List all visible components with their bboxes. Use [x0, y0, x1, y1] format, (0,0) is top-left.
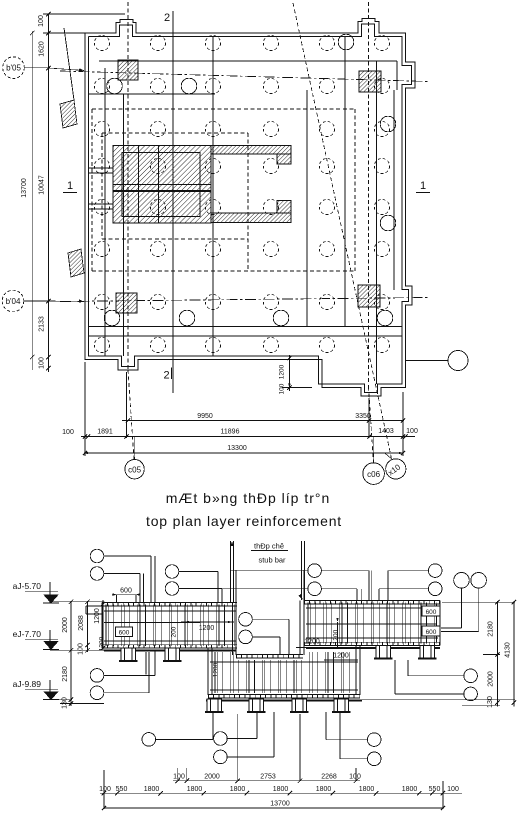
dim ticks left chain	[46, 12, 50, 16]
bottom dim row2	[100, 792, 462, 794]
column pad hatched bottom-left	[116, 293, 137, 313]
svg-text:4130: 4130	[505, 642, 512, 658]
grid line b04 horizontal chain	[60, 298, 428, 302]
callout circle M1	[239, 613, 253, 627]
plan dim line row3 13300	[84, 452, 403, 454]
callout circle RR2	[464, 687, 478, 701]
right band rebar lines	[306, 607, 438, 609]
section right dim extensions	[442, 601, 515, 603]
svg-text:1620: 1620	[39, 41, 46, 57]
column pad hatched top-left	[118, 60, 138, 80]
hatched arm bottom end tab	[277, 201, 291, 214]
hidden outline rectangle large	[92, 108, 355, 110]
section left dim vertical C	[102, 600, 104, 650]
rebar line vertical x123	[123, 94, 125, 356]
svg-text:2753: 2753	[260, 774, 276, 781]
svg-text:1891: 1891	[97, 429, 113, 436]
section right dim vertical B	[513, 601, 515, 707]
middle slab bottom edges	[208, 694, 360, 696]
pit pedestal 2	[249, 699, 264, 712]
rebar line horizontal lower 2	[89, 335, 402, 337]
bar mark box 600 lower	[422, 626, 440, 636]
grid bubble c05	[134, 437, 136, 460]
svg-text:1200: 1200	[304, 639, 320, 646]
plan dim line row1	[122, 420, 404, 422]
svg-text:9950: 9950	[197, 413, 213, 420]
svg-text:2180: 2180	[62, 666, 69, 682]
rebar line vertical x345	[344, 37, 346, 326]
svg-text:1200: 1200	[199, 625, 215, 632]
pile circles dashed grid	[94, 35, 109, 50]
bubble b05 leader	[24, 67, 48, 69]
svg-text:1800: 1800	[187, 786, 203, 793]
left band end step	[86, 605, 102, 607]
rebar line vertical x376	[376, 61, 378, 384]
svg-text:aJ-5.70: aJ-5.70	[13, 581, 42, 591]
grid line c06 vertical dashed	[368, 2, 370, 387]
pit right wall	[355, 646, 357, 696]
pit pedestal 1	[207, 699, 222, 712]
callout circle L4	[165, 582, 179, 596]
hatched arm top end tab	[277, 154, 291, 164]
grid line b05 horizontal chain	[60, 71, 428, 82]
rebar line vertical right-top short	[396, 61, 398, 90]
callout circle R1	[308, 564, 322, 578]
grid line c05 lower dashed	[128, 370, 134, 459]
rebar line vertical x307	[306, 90, 308, 326]
svg-text:1800: 1800	[273, 786, 289, 793]
column pad hatched top-right	[359, 71, 381, 92]
section line 2-2 vertical	[172, 21, 174, 393]
svg-text:600: 600	[426, 609, 437, 616]
pit bearing line	[206, 699, 362, 701]
plan bottom dim extension verticals	[84, 362, 86, 456]
column pad hatched bottom-right	[358, 285, 380, 307]
bubble b04 leader	[24, 300, 48, 302]
stub bar dowel vertical	[145, 652, 147, 675]
left band bar mark box 600	[116, 627, 133, 637]
svg-text:200: 200	[171, 626, 178, 637]
grid bubble b05	[3, 57, 25, 79]
svg-text:130: 130	[62, 697, 69, 709]
grid bubble c06	[373, 437, 375, 463]
grid line x10 diagonal dashed	[293, 3, 392, 459]
pile circles solid	[107, 78, 123, 94]
svg-text:600: 600	[426, 629, 437, 636]
svg-text:mÆt b»ng thÐp líp tr°n: mÆt b»ng thÐp líp tr°n	[166, 490, 331, 506]
svg-text:1: 1	[67, 180, 73, 192]
callout circle R4	[428, 582, 442, 596]
svg-text:b'04: b'04	[6, 297, 21, 306]
svg-text:top plan layer reinforcement: top plan layer reinforcement	[146, 513, 342, 529]
svg-text:1200: 1200	[279, 364, 286, 379]
svg-text:2268: 2268	[321, 774, 337, 781]
stub bar arrow at right band corner	[298, 594, 302, 600]
svg-text:1200: 1200	[94, 608, 101, 624]
svg-text:1200: 1200	[213, 662, 220, 677]
plan footing outline outer	[85, 19, 415, 397]
svg-text:1200: 1200	[333, 629, 340, 644]
svg-text:2088: 2088	[78, 615, 85, 631]
callout circle L2	[90, 567, 104, 581]
svg-text:2000: 2000	[204, 774, 220, 781]
left band rebar lines	[104, 610, 236, 612]
svg-text:1800: 1800	[230, 786, 246, 793]
left band pedestal 1	[121, 648, 136, 661]
left band pedestal 2	[165, 648, 180, 661]
grid line c05 vertical dashed	[127, 2, 129, 370]
grid bubble x10	[384, 453, 391, 459]
leader cluster verticals left	[143, 574, 145, 603]
svg-text:100: 100	[173, 774, 185, 781]
section left dim vertical A	[70, 601, 72, 706]
svg-text:100: 100	[349, 774, 361, 781]
svg-text:eJ-7.70: eJ-7.70	[13, 629, 42, 639]
svg-text:1: 1	[420, 180, 426, 192]
callout circle BR1	[367, 733, 381, 747]
dim line vertical inner	[47, 14, 49, 372]
section right dim ticks	[495, 600, 499, 604]
svg-text:600: 600	[120, 588, 132, 595]
svg-text:13700: 13700	[21, 178, 28, 198]
callout circle BR2	[367, 752, 381, 766]
hatched arm bottom	[211, 213, 291, 223]
section left dim extensions	[50, 601, 104, 603]
grid line c06 lower dashed	[369, 387, 374, 463]
svg-text:2000: 2000	[62, 617, 69, 633]
section right dim vertical A	[497, 601, 499, 707]
bottom dim row3	[104, 807, 443, 809]
rebar line vertical x394	[393, 90, 395, 290]
svg-text:2: 2	[164, 12, 170, 24]
svg-text:1200: 1200	[99, 636, 106, 651]
rebar line horizontal upper-left	[89, 93, 215, 95]
right band pedestal 2	[420, 646, 435, 659]
callout circle BL1	[90, 669, 104, 683]
svg-text:aJ-9.89: aJ-9.89	[13, 679, 42, 689]
rebar line horizontal lower 1	[89, 326, 402, 328]
right band bearing line	[306, 647, 440, 649]
middle slab vertical bars	[214, 652, 216, 693]
svg-text:130: 130	[487, 696, 494, 708]
svg-text:100: 100	[447, 786, 459, 793]
svg-text:2180: 2180	[488, 621, 495, 637]
svg-text:100: 100	[279, 383, 286, 394]
svg-text:11896: 11896	[221, 429, 240, 436]
svg-text:100: 100	[78, 643, 85, 655]
rebar line vertical x105	[104, 68, 106, 356]
svg-text:2133: 2133	[39, 316, 46, 332]
central block division lines	[113, 184, 211, 186]
svg-text:2000: 2000	[488, 671, 495, 687]
callout circle BL3	[142, 733, 156, 747]
svg-text:1403: 1403	[378, 428, 394, 435]
small dim 1200/100 bottom-right of plan	[288, 355, 290, 391]
cut wedge left lower	[68, 249, 84, 277]
right band left end wall	[299, 601, 301, 656]
callout circle BM1	[214, 732, 228, 746]
hidden outline rectangle inner	[102, 132, 248, 134]
right band pedestal 1	[376, 646, 391, 659]
svg-text:3350: 3350	[355, 413, 371, 420]
svg-text:1200: 1200	[333, 653, 349, 660]
svg-text:1800: 1800	[316, 786, 332, 793]
bottom dim row1	[173, 780, 360, 782]
callout circle BM2	[214, 750, 228, 764]
dim extension top corner	[43, 32, 85, 34]
left band bearing line	[104, 649, 236, 651]
section left dim vertical B	[87, 601, 89, 652]
svg-text:1800: 1800	[402, 786, 418, 793]
cut wedge left upper	[60, 100, 77, 128]
left band right end wall	[232, 603, 234, 656]
dim extension top	[43, 13, 125, 15]
callout circle right of plan	[405, 360, 448, 362]
central block inner outline	[122, 153, 200, 217]
pit pedestal 4	[334, 699, 349, 712]
section left dim ticks	[69, 600, 73, 604]
right footing band	[304, 600, 440, 602]
middle slab top edges	[236, 654, 303, 656]
bar mark box 600 upper	[422, 606, 440, 616]
svg-text:13700: 13700	[270, 801, 290, 808]
svg-text:c05: c05	[128, 465, 141, 474]
svg-text:c06: c06	[367, 470, 380, 479]
svg-text:thÐp chê: thÐp chê	[254, 542, 284, 551]
callout circle RR1	[464, 669, 478, 683]
callout circle far-right pair	[454, 573, 470, 589]
middle slab rebar lines	[210, 661, 358, 663]
callout circle L3	[165, 565, 179, 579]
svg-text:100: 100	[38, 15, 45, 27]
svg-text:1800: 1800	[359, 786, 375, 793]
svg-text:13300: 13300	[227, 445, 247, 452]
callout circle R3	[428, 564, 442, 578]
svg-text:550: 550	[116, 786, 128, 793]
left footing band	[102, 602, 237, 604]
svg-text:2: 2	[163, 370, 169, 382]
svg-text:b'05: b'05	[6, 64, 21, 73]
dim line vertical 13700	[31, 31, 33, 370]
svg-text:1800: 1800	[144, 786, 160, 793]
callout circle BL2	[90, 686, 104, 700]
stub bar leader verticals	[230, 541, 232, 602]
leader cluster verticals right	[360, 589, 362, 600]
svg-text:100: 100	[62, 429, 74, 436]
svg-text:100: 100	[406, 428, 418, 435]
hatched arm top	[211, 146, 291, 155]
grid bubble b04	[2, 290, 24, 312]
rebar line vertical x213	[212, 37, 214, 356]
rebar line horizontal top	[99, 60, 397, 62]
svg-text:100: 100	[39, 357, 46, 369]
plan dim line row2	[81, 436, 415, 438]
rebar line horizontal mid-left pair 2	[89, 203, 113, 205]
svg-text:stub bar: stub bar	[258, 556, 286, 565]
central hatched block	[113, 146, 211, 224]
callout circle R2	[308, 582, 322, 596]
svg-text:100: 100	[99, 786, 111, 793]
callout circle L1	[90, 549, 104, 563]
plan footing outline inner	[89, 24, 412, 393]
break line top-left	[64, 28, 74, 100]
callout circle M2	[239, 630, 253, 644]
central block vertical lines	[138, 146, 140, 224]
pit left wall	[207, 648, 209, 695]
bottom dims extension verticals	[177, 768, 179, 781]
svg-text:550: 550	[429, 786, 441, 793]
pit pedestal 3	[292, 699, 307, 712]
svg-text:600: 600	[119, 630, 130, 637]
rebar line horizontal mid-left pair	[89, 167, 113, 169]
svg-text:10047: 10047	[39, 175, 46, 195]
